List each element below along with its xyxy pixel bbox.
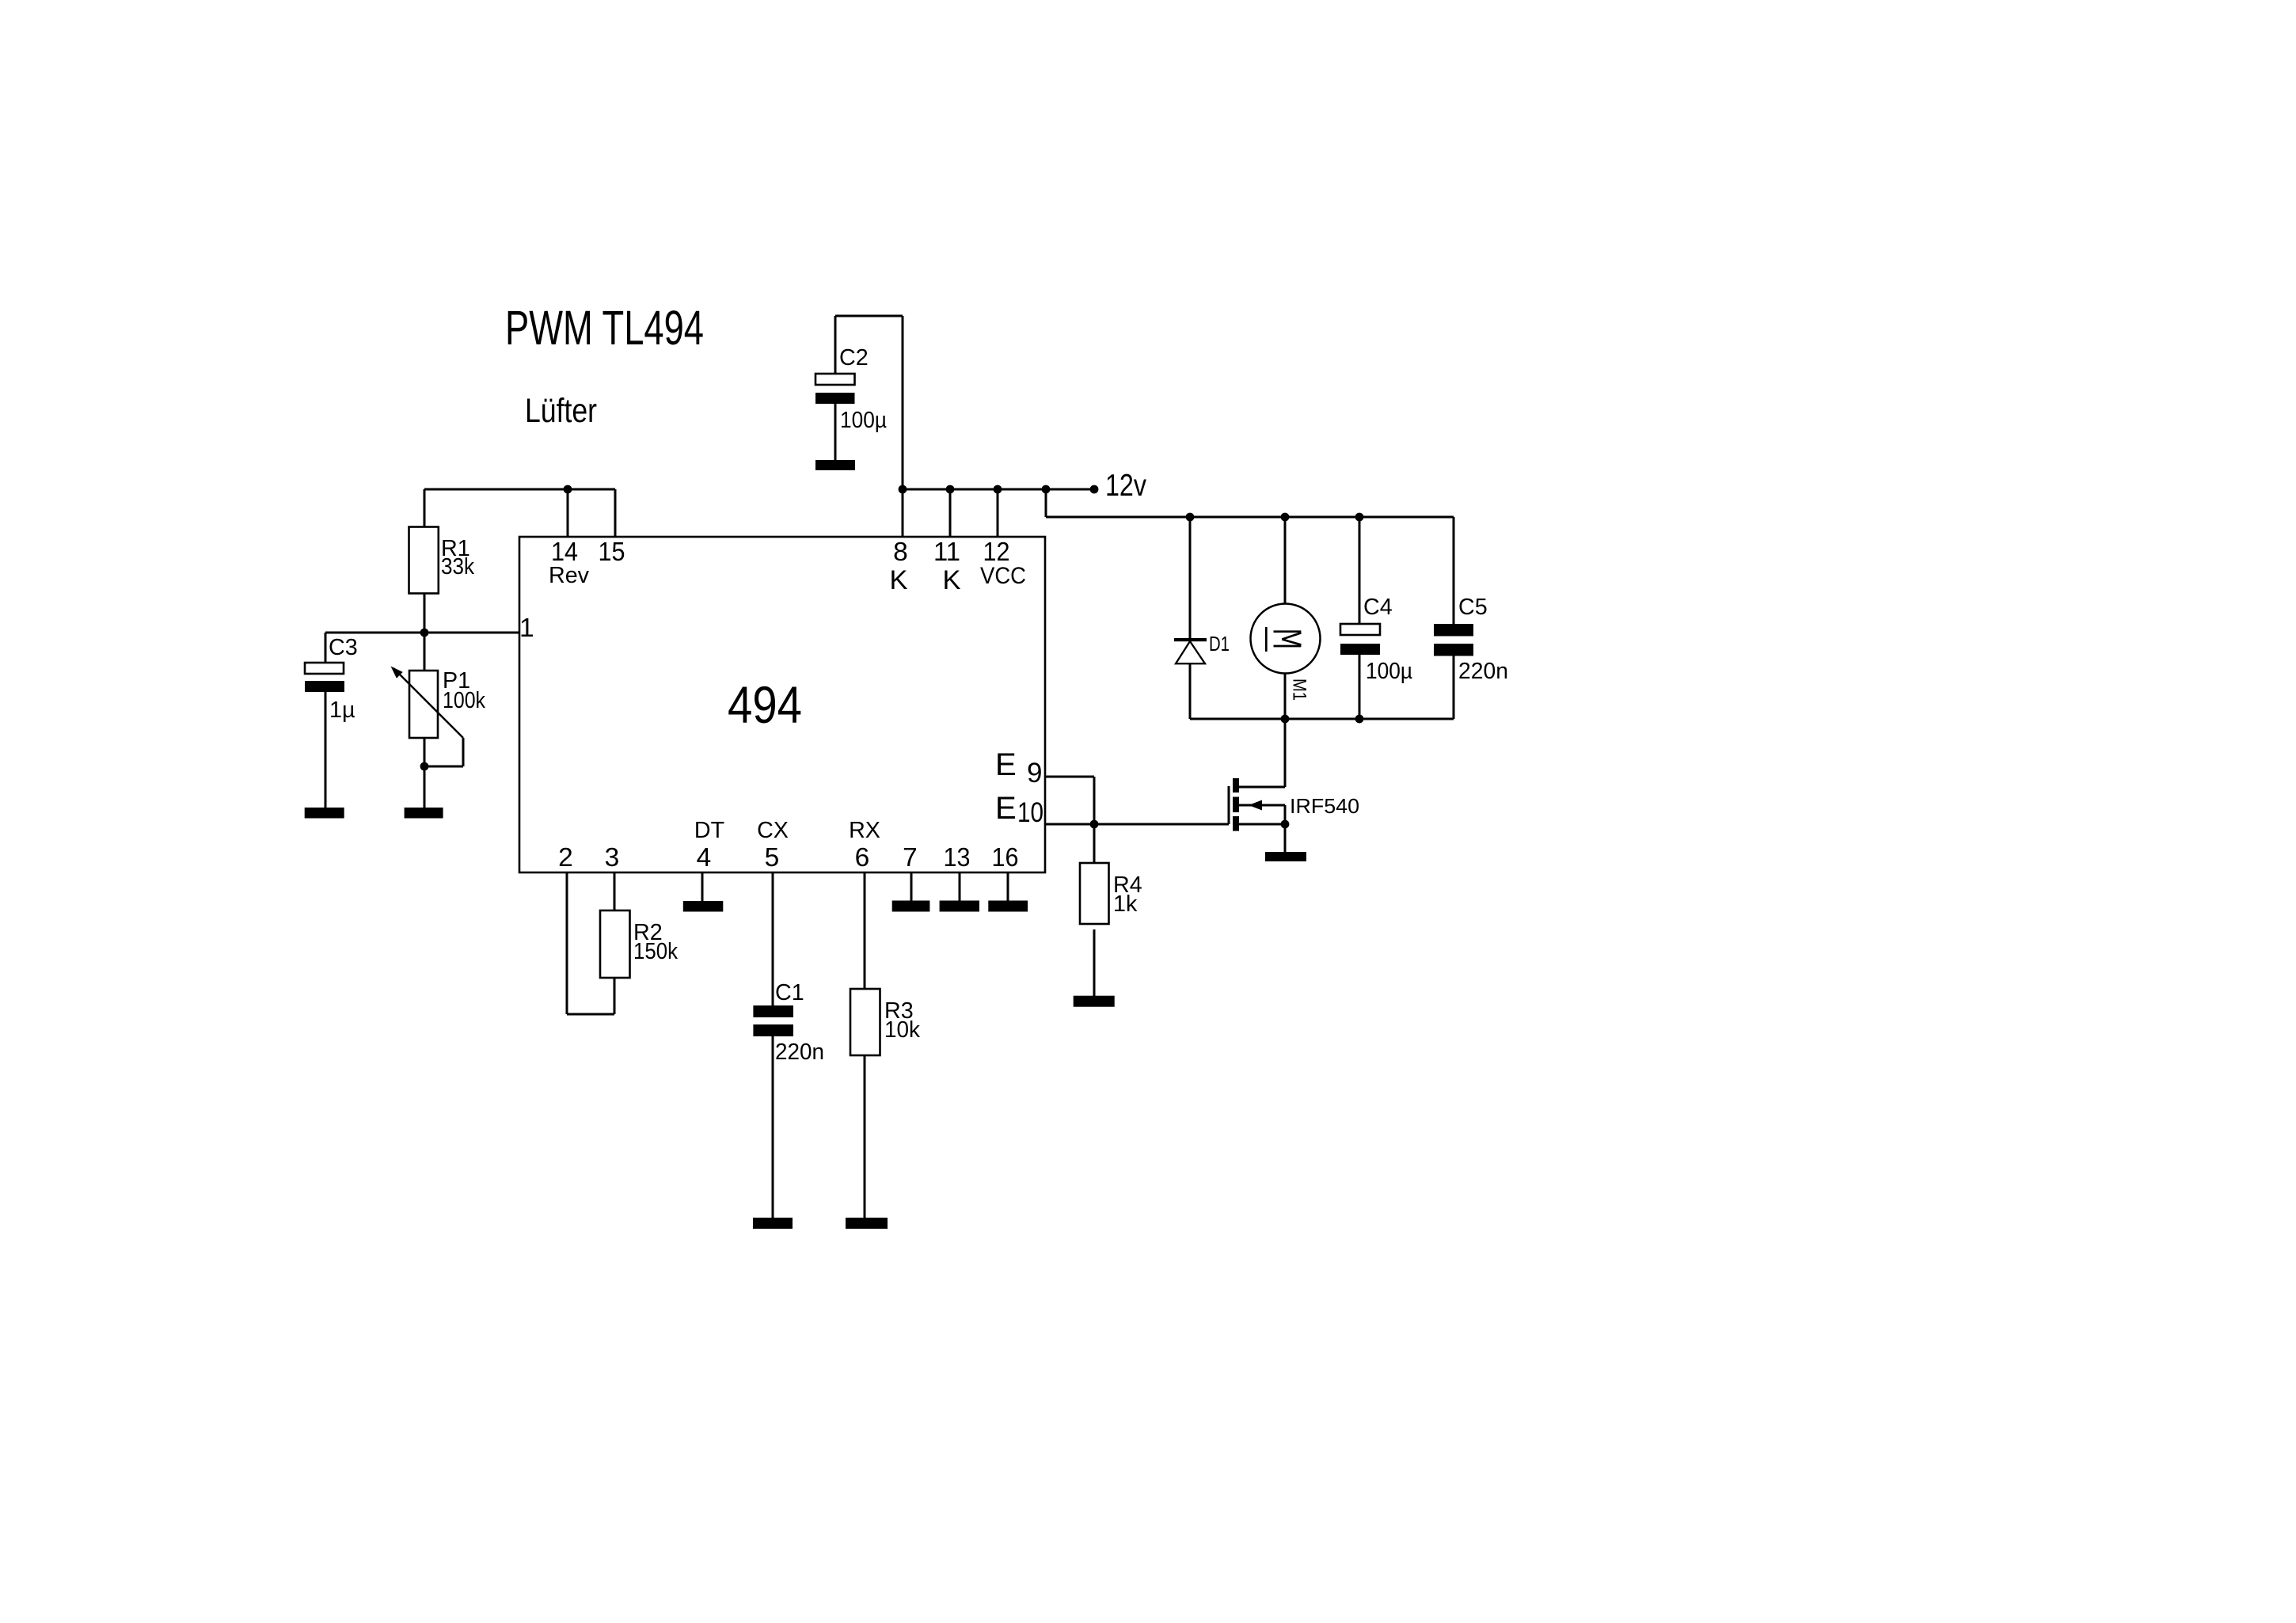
svg-text:CX: CX (757, 818, 789, 843)
svg-text:494: 494 (728, 676, 802, 734)
svg-text:100k: 100k (443, 688, 486, 713)
svg-text:RX: RX (849, 818, 880, 843)
svg-text:Rev: Rev (549, 563, 590, 588)
svg-text:VCC: VCC (980, 563, 1026, 589)
svg-text:10k: 10k (884, 1017, 921, 1043)
svg-text:C5: C5 (1458, 595, 1488, 620)
svg-text:220n: 220n (775, 1040, 824, 1065)
svg-text:C2: C2 (839, 345, 869, 371)
svg-text:15: 15 (599, 538, 625, 567)
svg-text:7: 7 (903, 843, 918, 872)
svg-text:33k: 33k (441, 554, 475, 580)
svg-text:8: 8 (893, 538, 908, 567)
svg-text:E: E (995, 747, 1017, 782)
svg-text:1k: 1k (1113, 891, 1138, 917)
svg-text:K: K (889, 565, 907, 595)
svg-text:11: 11 (933, 538, 960, 567)
svg-text:150k: 150k (633, 939, 679, 964)
svg-text:1: 1 (519, 614, 534, 643)
svg-text:100µ: 100µ (840, 408, 887, 433)
svg-text:13: 13 (944, 843, 971, 872)
svg-text:K: K (942, 565, 960, 595)
svg-text:4: 4 (697, 843, 712, 872)
svg-text:16: 16 (992, 843, 1019, 872)
svg-text:C1: C1 (775, 980, 804, 1005)
svg-text:IRF540: IRF540 (1290, 794, 1359, 818)
svg-text:12v: 12v (1105, 469, 1146, 503)
svg-text:Lüfter: Lüfter (525, 392, 597, 430)
svg-text:C4: C4 (1363, 595, 1393, 620)
svg-text:1µ: 1µ (329, 697, 355, 723)
svg-text:3: 3 (605, 843, 620, 872)
svg-text:100µ: 100µ (1366, 659, 1412, 684)
svg-text:5: 5 (765, 843, 780, 872)
svg-text:2: 2 (558, 843, 573, 872)
svg-text:DT: DT (694, 818, 724, 843)
svg-text:6: 6 (855, 843, 870, 872)
svg-text:D1: D1 (1209, 632, 1230, 656)
svg-text:PWM TL494: PWM TL494 (505, 301, 704, 355)
svg-text:M1: M1 (1289, 678, 1310, 701)
svg-text:E: E (995, 791, 1017, 826)
svg-text:220n: 220n (1458, 659, 1508, 684)
svg-text:9: 9 (1027, 758, 1042, 789)
svg-text:10: 10 (1017, 797, 1043, 828)
svg-text:C3: C3 (329, 635, 358, 660)
